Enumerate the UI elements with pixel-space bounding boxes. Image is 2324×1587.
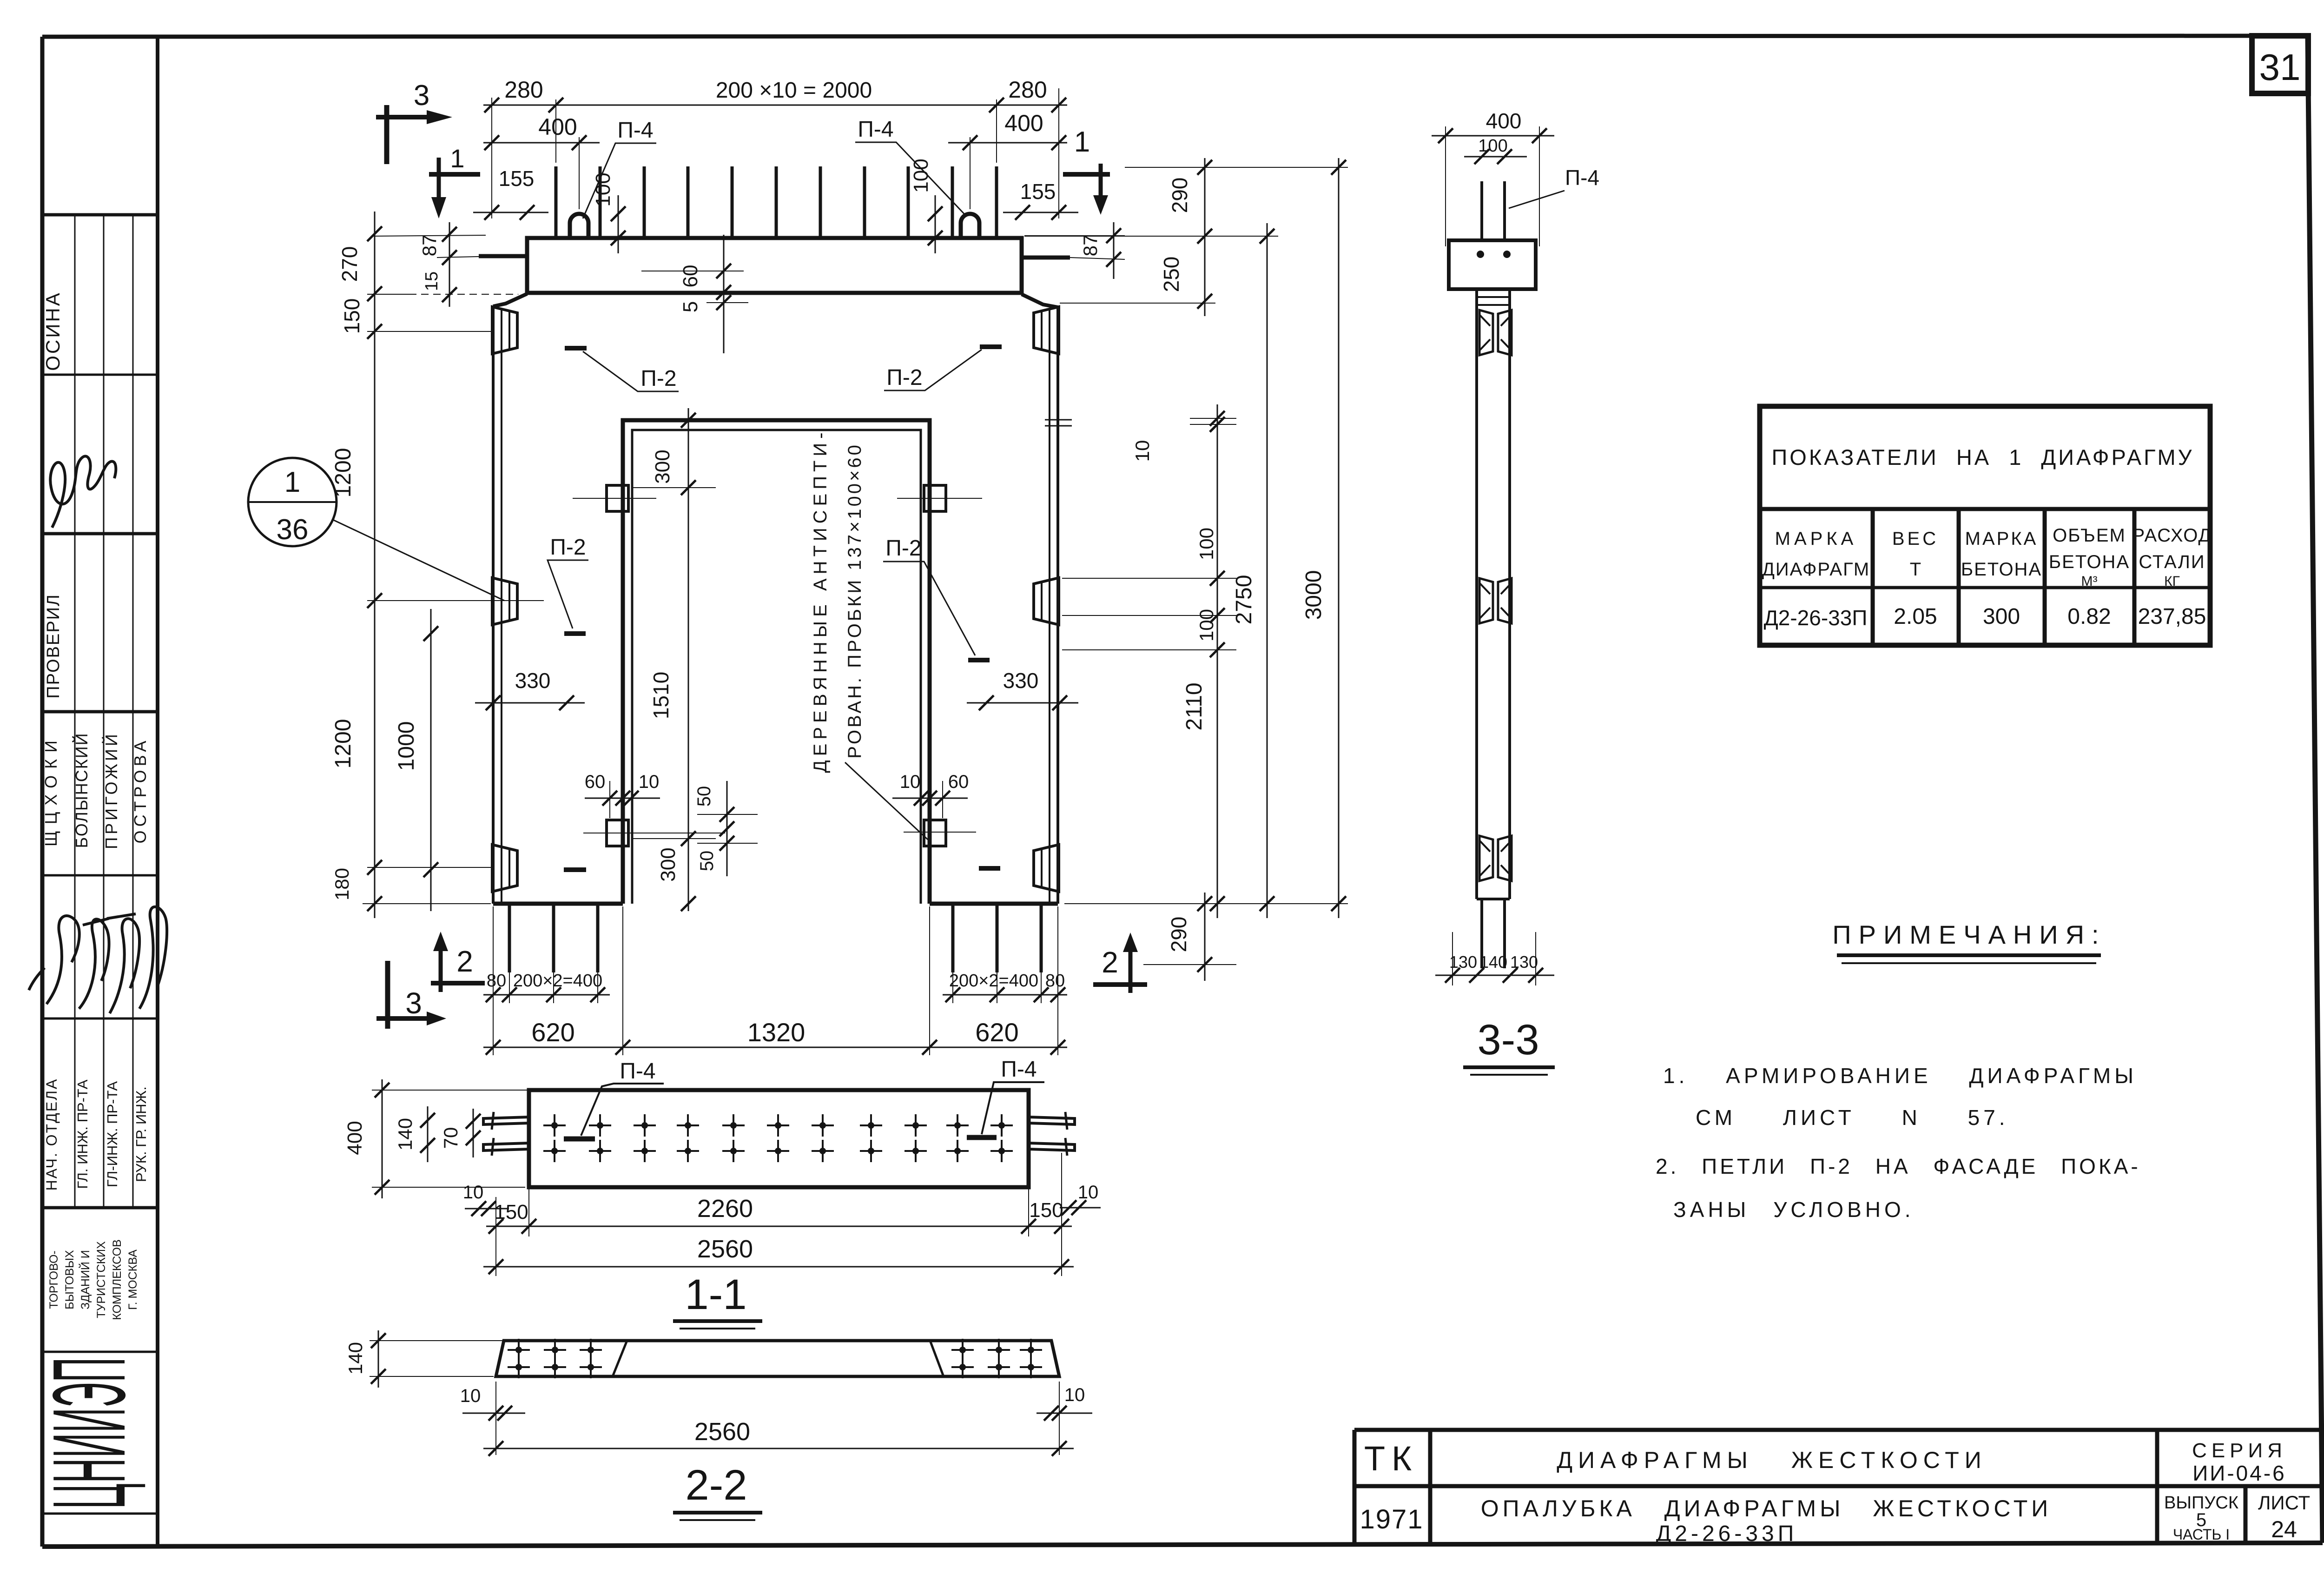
svg-text:БЫТОВЫХ: БЫТОВЫХ (63, 1250, 76, 1309)
side stub right (1022, 256, 1070, 260)
svg-text:10: 10 (1064, 1385, 1085, 1405)
FACADE VIEW (248, 166, 1070, 972)
dim 140 left (378, 1330, 379, 1388)
groove key left middle (492, 578, 517, 625)
svg-text:300: 300 (1983, 604, 2020, 629)
svg-text:П-2: П-2 (885, 536, 921, 561)
table subheader divider (1760, 586, 2210, 589)
dim 80 200x2=400 left (483, 994, 610, 996)
svg-text:3: 3 (405, 986, 422, 1020)
ext line body top right (1060, 303, 1215, 304)
svg-text:П-2: П-2 (550, 535, 586, 560)
dim 10 left (462, 1413, 525, 1414)
svg-text:ЗДАНИЙ И: ЗДАНИЙ И (78, 1250, 92, 1309)
svg-text:БЕТОНА: БЕТОНА (1961, 559, 2042, 580)
loop notch middle (1479, 578, 1493, 623)
svg-text:80: 80 (1045, 971, 1065, 991)
bottom dims 130 140 130 (1435, 975, 1554, 976)
svg-text:ДИАФРАГМ: ДИАФРАГМ (1762, 559, 1870, 580)
section mark 1 top left (429, 172, 480, 177)
dim 155 right (1003, 212, 1078, 213)
svg-text:ОСИНА: ОСИНА (42, 291, 64, 371)
svg-text:3-3: 3-3 (1478, 1016, 1539, 1064)
svg-text:КОМПЛЕКСОВ: КОМПЛЕКСОВ (111, 1239, 124, 1320)
ext legs bottom right (1064, 903, 1348, 904)
left inner chain 1000 (430, 609, 432, 911)
dim 330 right (967, 702, 1078, 704)
svg-text:ОБЪЕМ: ОБЪЕМ (2053, 525, 2126, 546)
svg-text:ЗАНЫ УСЛОВНО.: ЗАНЫ УСЛОВНО. (1673, 1197, 1915, 1222)
section mark 3 bottom (385, 961, 390, 1029)
door opening outer contour (623, 420, 930, 904)
svg-text:РАСХОД: РАСХОД (2132, 525, 2212, 546)
wooden plug right upper (897, 498, 982, 499)
svg-text:ПОКАЗАТЕЛИ НА 1 ДИАФРАГМУ: ПОКАЗАТЕЛИ НА 1 ДИАФРАГМУ (1772, 445, 2194, 469)
left main chain (374, 212, 376, 918)
dim 100 top (1464, 156, 1527, 158)
table column lines (1871, 509, 1875, 645)
wooden plug left upper (573, 498, 656, 499)
svg-text:24: 24 (2271, 1516, 2297, 1542)
ext dowel left (555, 99, 556, 163)
svg-text:80: 80 (487, 971, 506, 991)
left ext lines (367, 294, 411, 295)
svg-text:300: 300 (651, 450, 674, 483)
svg-text:400: 400 (538, 114, 577, 140)
svg-text:87: 87 (1079, 235, 1101, 257)
ext loop right (970, 137, 971, 209)
dim 70 (473, 1109, 474, 1157)
dim 200x2=400 80 right (943, 994, 1067, 996)
svg-text:Г. МОСКВА: Г. МОСКВА (126, 1250, 139, 1310)
svg-text:ТК: ТК (1364, 1439, 1418, 1478)
right leg bottom (930, 902, 1058, 906)
groove key left top (492, 307, 517, 354)
svg-text:П-2: П-2 (886, 365, 922, 390)
svg-text:ПРОВЕРИЛ: ПРОВЕРИЛ (44, 594, 63, 699)
body right edge outer (1056, 307, 1059, 904)
svg-text:5: 5 (679, 301, 702, 312)
svg-text:П-4: П-4 (1001, 1057, 1037, 1082)
svg-text:2260: 2260 (697, 1195, 753, 1223)
svg-text:10: 10 (1078, 1182, 1099, 1203)
zone divider left (613, 1341, 627, 1376)
dims 150 2260 150 (486, 1226, 1072, 1227)
crosses right zone (951, 1339, 974, 1361)
bottom leg ext lines (493, 906, 494, 1055)
svg-text:15: 15 (422, 271, 442, 291)
svg-text:ОСТРОВА: ОСТРОВА (131, 737, 150, 844)
small dim 50 50 (726, 781, 728, 876)
lifting loop P-4 right (961, 214, 979, 238)
svg-text:300: 300 (657, 847, 680, 881)
rebar cross marks row1 (543, 1114, 566, 1137)
detail leader line (333, 520, 504, 601)
svg-text:СМ ЛИСТ N 57.: СМ ЛИСТ N 57. (1696, 1105, 2009, 1130)
sheet number box 31 (2252, 36, 2308, 93)
side stub left (479, 254, 527, 258)
page left border (40, 37, 45, 1547)
dim 2560 (483, 1448, 1074, 1449)
SECTION 3-3 (1432, 109, 1599, 1075)
section mark 3 top (384, 105, 390, 164)
svg-text:100: 100 (1478, 136, 1507, 156)
ext line beam top right (1024, 236, 1278, 237)
panel edge joint lines (1045, 419, 1072, 421)
LEFT TITLE STRIP (29, 37, 167, 1547)
svg-text:155: 155 (499, 166, 535, 191)
svg-text:ГЛ. ИНЖ. ПР-ТА: ГЛ. ИНЖ. ПР-ТА (74, 1079, 91, 1189)
dim 140 (427, 1106, 429, 1162)
svg-text:150: 150 (340, 298, 364, 334)
rebar dowels on top of beam (556, 166, 997, 238)
svg-text:Т: Т (1910, 559, 1921, 580)
loop notch top (1479, 310, 1493, 355)
loop mark P-2 middle left (564, 631, 586, 636)
svg-text:2. ПЕТЛИ П-2 НА ФАСАДЕ ПОКА-: 2. ПЕТЛИ П-2 НА ФАСАДЕ ПОКА- (1656, 1154, 2141, 1178)
rebar dowels under right leg (953, 904, 1041, 972)
wooden plug left lower (583, 833, 725, 833)
divider vypusk/list (2244, 1486, 2248, 1544)
INDICATORS TABLE (1760, 406, 2212, 645)
svg-text:БЕТОНА: БЕТОНА (2049, 552, 2130, 572)
title block left edge (1353, 1430, 1357, 1545)
chain 2750 right (1267, 223, 1268, 918)
svg-text:1510: 1510 (649, 672, 673, 719)
dim 400 left (483, 142, 600, 144)
svg-text:П-4: П-4 (858, 117, 893, 142)
top bars (1480, 181, 1483, 240)
ext line top bars level (1125, 167, 1348, 168)
svg-text:ГЛ-ИНЖ. ПР-ТА: ГЛ-ИНЖ. ПР-ТА (104, 1081, 120, 1187)
P-4 loop mark left (564, 1137, 595, 1142)
ext loop left (579, 137, 580, 209)
page right border (2308, 36, 2323, 1543)
svg-text:ЧАСТЬ I: ЧАСТЬ I (2173, 1526, 2230, 1543)
svg-text:1: 1 (450, 144, 464, 173)
svg-text:2-2: 2-2 (686, 1461, 747, 1509)
svg-text:280: 280 (1008, 77, 1047, 103)
svg-text:ЛИСТ: ЛИСТ (2258, 1492, 2310, 1514)
svg-text:50: 50 (694, 786, 714, 807)
svg-text:2: 2 (456, 945, 473, 978)
svg-text:ИИ-04-6: ИИ-04-6 (2192, 1461, 2286, 1485)
svg-text:140: 140 (394, 1118, 416, 1151)
groove key right bottom (1034, 845, 1059, 892)
cap rectangle (1449, 240, 1536, 289)
svg-text:200 ×10 = 2000: 200 ×10 = 2000 (716, 78, 872, 103)
dim 87 15 left (449, 222, 450, 307)
signature Осин (50, 456, 116, 528)
svg-text:ЦНИИЭП: ЦНИИЭП (32, 1357, 147, 1509)
svg-text:РУК. ГР. ИНЖ.: РУК. ГР. ИНЖ. (133, 1086, 149, 1182)
dim 155 left (473, 212, 548, 213)
svg-text:П-4: П-4 (620, 1059, 655, 1084)
svg-text:200×2=400: 200×2=400 (949, 971, 1038, 991)
groove key right top (1034, 307, 1059, 354)
svg-text:БОЛЫНСКИЙ: БОЛЫНСКИЙ (72, 732, 91, 848)
column neck lines (1477, 296, 1510, 298)
svg-text:1200: 1200 (331, 719, 356, 769)
loop mark P-2 upper left (565, 346, 587, 350)
zone divider right (930, 1341, 944, 1376)
signatures row (29, 916, 79, 1004)
svg-text:2750: 2750 (1232, 575, 1256, 625)
svg-text:237,85: 237,85 (2138, 604, 2206, 629)
dim 2560 (483, 1266, 1074, 1268)
lifting loop P-4 left (570, 214, 588, 238)
dim 87 right (1113, 222, 1115, 279)
institute text block (47, 1239, 139, 1320)
page bottom border (42, 1543, 2323, 1547)
dim 400 left (382, 1079, 383, 1198)
right chain 290 250 (1204, 158, 1206, 316)
svg-text:250: 250 (1159, 257, 1183, 292)
title block top line (1354, 1428, 2323, 1432)
right bottom 290 (1197, 957, 1212, 972)
svg-text:10: 10 (460, 1386, 481, 1406)
svg-text:87: 87 (418, 235, 440, 257)
svg-text:150: 150 (1029, 1199, 1063, 1222)
strip row dividers (42, 213, 158, 217)
svg-text:МАРКА: МАРКА (1965, 529, 2038, 549)
svg-text:2110: 2110 (1182, 682, 1207, 730)
svg-text:330: 330 (515, 668, 551, 693)
loop notch bottom (1479, 836, 1493, 881)
svg-text:ВЕС: ВЕС (1892, 529, 1939, 549)
chain 3000 right (1338, 158, 1340, 918)
dim 100 at right loop (935, 195, 936, 253)
svg-text:2560: 2560 (697, 1235, 753, 1263)
SECTION 2-2 (344, 1330, 1092, 1520)
dim 60 5 mid beam (723, 235, 725, 353)
divider after TK cell (1428, 1430, 1433, 1545)
rebar cross marks row2 (543, 1140, 566, 1162)
body left edge inner (501, 308, 502, 904)
svg-text:620: 620 (531, 1018, 574, 1047)
svg-text:ТОРГОВО-: ТОРГОВО- (47, 1250, 60, 1309)
door opening inner contour (632, 430, 921, 904)
svg-text:ПРИГОЖИЙ: ПРИГОЖИЙ (101, 731, 121, 849)
svg-text:270: 270 (337, 246, 362, 282)
svg-text:155: 155 (1020, 179, 1056, 204)
cap bar dots (1477, 251, 1484, 258)
bottom bars (1480, 899, 1483, 968)
SECTION 1-1 (343, 1057, 1101, 1329)
svg-text:400: 400 (343, 1121, 366, 1155)
svg-text:130: 130 (1510, 952, 1538, 972)
svg-text:1: 1 (284, 466, 300, 498)
svg-text:2: 2 (1102, 946, 1118, 979)
crosses left zone (508, 1339, 530, 1361)
body left edge outer (492, 306, 495, 904)
svg-text:ОПАЛУБКА ДИАФРАГМЫ ЖЕСТКОСТИ: ОПАЛУБКА ДИАФРАГМЫ ЖЕСТКОСТИ (1481, 1495, 2052, 1521)
svg-text:П-2: П-2 (640, 366, 676, 391)
loop mark P-2 upper right (980, 344, 1002, 349)
svg-text:СТАЛИ: СТАЛИ (2139, 552, 2205, 572)
detail mark circle 1/36 (248, 458, 337, 546)
svg-text:180: 180 (331, 868, 353, 900)
svg-text:3: 3 (414, 79, 429, 112)
right small dim 10 (1190, 418, 1236, 419)
strip right vertical (156, 37, 159, 1547)
svg-text:1200: 1200 (331, 448, 356, 498)
rebar dowels under left leg (509, 904, 598, 972)
svg-text:1-1: 1-1 (685, 1271, 747, 1318)
protruding bars right (1029, 1117, 1075, 1124)
logo ЦНИИЭП (32, 1357, 147, 1509)
svg-text:СЕРИЯ: СЕРИЯ (2192, 1439, 2287, 1462)
svg-text:140: 140 (1479, 952, 1507, 972)
svg-text:280: 280 (504, 77, 543, 103)
svg-text:100: 100 (1195, 609, 1217, 641)
plug leader line (845, 762, 928, 840)
svg-text:36: 36 (277, 514, 309, 546)
top flange beam (527, 238, 1022, 293)
groove key right middle (1034, 578, 1059, 625)
ext dowel right (996, 99, 997, 163)
table header divider (1760, 507, 2210, 511)
svg-text:100: 100 (1195, 528, 1217, 560)
svg-text:60: 60 (948, 772, 969, 792)
FACADE DIMENSIONS (331, 77, 1348, 1055)
svg-text:ЩЦХОКИ: ЩЦХОКИ (41, 734, 60, 846)
svg-text:3000: 3000 (1301, 570, 1326, 620)
left shoulder (493, 294, 527, 306)
svg-text:620: 620 (975, 1018, 1018, 1047)
dim 100 at left loop (618, 195, 619, 253)
svg-text:140: 140 (344, 1342, 366, 1375)
svg-text:70: 70 (440, 1127, 462, 1149)
divider before series cell (2155, 1430, 2159, 1545)
svg-text:31: 31 (2259, 46, 2301, 88)
column bottom (1477, 898, 1510, 900)
svg-text:РОВАН. ПРОБКИ 137×100×60: РОВАН. ПРОБКИ 137×100×60 (845, 443, 865, 759)
small dim 10 60 right (892, 798, 968, 799)
dim 400 top (1432, 135, 1554, 137)
table outer box (1760, 406, 2210, 645)
door chain 300 1510 300 (688, 408, 689, 911)
right shoulder (1022, 294, 1058, 307)
svg-text:ДЕРЕВЯННЫЕ АНТИСЕПТИ-: ДЕРЕВЯННЫЕ АНТИСЕПТИ- (810, 429, 831, 773)
svg-text:МАРКА: МАРКА (1775, 529, 1857, 549)
strip sub-columns (74, 215, 76, 1208)
svg-text:100: 100 (910, 159, 932, 192)
dim 620 1320 620 (483, 1047, 1067, 1048)
svg-text:2560: 2560 (694, 1418, 750, 1446)
heading underline (1837, 953, 2101, 957)
dim 10 right (1060, 1207, 1101, 1209)
section 1-1 body (529, 1090, 1029, 1187)
svg-text:П-4: П-4 (1565, 165, 1599, 190)
svg-text:М³: М³ (2081, 574, 2098, 589)
ext line body right top (1058, 88, 1059, 218)
NOTES (1656, 920, 2141, 1222)
svg-text:330: 330 (1003, 668, 1039, 693)
svg-text:Д2-26-33П: Д2-26-33П (1764, 606, 1868, 630)
svg-text:60: 60 (679, 265, 702, 288)
dim line 280 / 2000 / 280 (483, 105, 1067, 106)
svg-text:ТУРИСТСКИХ: ТУРИСТСКИХ (95, 1241, 108, 1318)
loop mark P-2 lower left (564, 867, 586, 872)
svg-text:150: 150 (494, 1201, 528, 1223)
svg-text:2.05: 2.05 (1894, 604, 1937, 629)
svg-text:290: 290 (1167, 917, 1191, 952)
svg-text:Д2-26-33П: Д2-26-33П (1656, 1521, 1797, 1546)
svg-text:130: 130 (1449, 952, 1477, 972)
svg-text:НАЧ. ОТДЕЛА: НАЧ. ОТДЕЛА (43, 1078, 60, 1191)
protruding bars left (483, 1117, 529, 1124)
P-4 loop mark right (967, 1135, 997, 1140)
ext line body left top (491, 98, 492, 218)
svg-text:1. АРМИРОВАНИЕ ДИАФРАГМЫ: 1. АРМИРОВАНИЕ ДИАФРАГМЫ (1663, 1064, 2137, 1088)
svg-text:КГ: КГ (2164, 574, 2180, 589)
left leg bottom (493, 902, 623, 906)
title block middle line (1354, 1484, 2323, 1488)
svg-text:10: 10 (639, 772, 660, 792)
wooden plug right lower (904, 832, 976, 833)
chain 2110 right (1217, 404, 1218, 918)
svg-text:60: 60 (585, 772, 606, 792)
svg-text:1971: 1971 (1360, 1504, 1423, 1534)
section 2-2 outline (496, 1341, 1059, 1376)
svg-text:1000: 1000 (394, 721, 419, 771)
section mark 2 bottom right (1129, 949, 1133, 993)
column edges (1475, 289, 1478, 899)
section mark 1 top right (1063, 172, 1110, 177)
svg-text:50: 50 (697, 851, 717, 872)
svg-text:1: 1 (1074, 126, 1090, 158)
svg-text:290: 290 (1168, 178, 1192, 213)
section mark 2 bottom left (439, 948, 443, 992)
dim 400 right (948, 142, 1067, 144)
dim 10 right (1037, 1413, 1092, 1414)
small dim 60 10 left (585, 798, 660, 799)
loop mark P-2 middle right (968, 658, 990, 662)
ext verticals (495, 1197, 496, 1276)
dim 330 left (475, 702, 585, 704)
svg-text:1320: 1320 (747, 1018, 805, 1047)
svg-text:10: 10 (1131, 440, 1153, 462)
loop mark P-2 lower right (979, 866, 1000, 871)
svg-text:П-4: П-4 (617, 118, 653, 143)
TITLE BLOCK (1354, 1430, 2323, 1546)
dim 10 left (465, 1208, 509, 1210)
svg-text:400: 400 (1486, 109, 1522, 133)
ext verticals (495, 1382, 496, 1455)
body right edge inner (1049, 308, 1050, 904)
svg-text:ДИАФРАГМЫ ЖЕСТКОСТИ: ДИАФРАГМЫ ЖЕСТКОСТИ (1557, 1447, 1987, 1473)
svg-text:400: 400 (1004, 110, 1043, 136)
svg-text:ПРИМЕЧАНИЯ:: ПРИМЕЧАНИЯ: (1832, 920, 2106, 949)
page top border (42, 36, 2253, 37)
svg-text:0.82: 0.82 (2067, 604, 2111, 629)
svg-text:10: 10 (463, 1182, 484, 1203)
svg-text:200×2=400: 200×2=400 (513, 971, 602, 991)
groove key left bottom (492, 845, 517, 892)
svg-text:10: 10 (900, 772, 921, 792)
